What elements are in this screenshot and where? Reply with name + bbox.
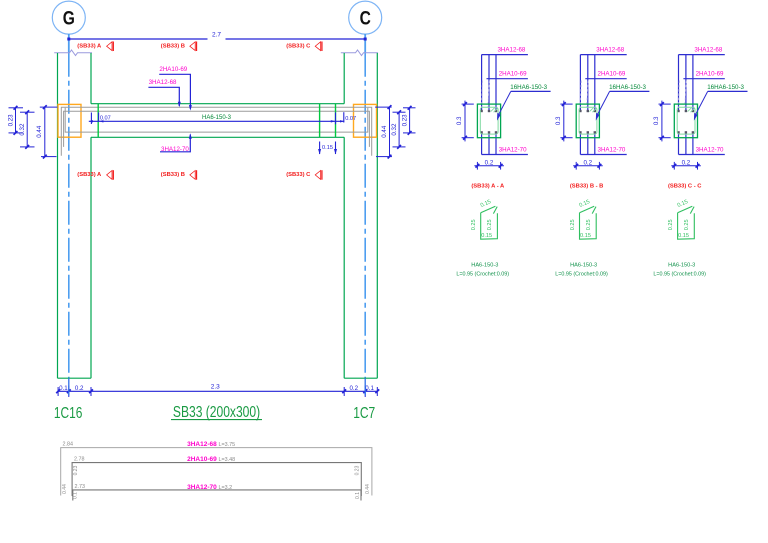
svg-text:SB33 (200x300): SB33 (200x300) (173, 403, 260, 421)
dimension 0.23 right (401, 106, 415, 135)
label 2HA10-69 with leader (159, 66, 192, 111)
svg-text:0.1: 0.1 (73, 492, 79, 499)
dimension 2.7 top (67, 32, 366, 41)
section cut marker (SB33) A bottom (77, 170, 113, 180)
svg-text:(SB33) A: (SB33) A (77, 43, 102, 49)
dimension 0.44 right (375, 105, 392, 158)
label 3HA12-68 with leader (148, 79, 180, 107)
svg-text:(SB33) A: (SB33) A (77, 172, 102, 178)
stirrup tick left (97, 104, 99, 137)
stirrup distribution line HA6-150-3 (89, 112, 356, 124)
rebar 2HA10-69 elevation (second top bar with 0.32 hooks) (64, 111, 370, 147)
svg-text:0.23: 0.23 (7, 114, 14, 127)
dimension 0.32 left (19, 110, 35, 149)
svg-text:0.23: 0.23 (401, 114, 408, 127)
section B-B assembly (555, 47, 650, 278)
svg-text:1C16: 1C16 (54, 404, 83, 422)
joint block left (58, 104, 81, 137)
svg-text:HA6-150-3: HA6-150-3 (202, 115, 232, 121)
svg-text:0.1: 0.1 (365, 385, 374, 392)
section A-A assembly (456, 47, 551, 278)
column 1C16 outline (58, 53, 92, 378)
svg-text:(SB33) C: (SB33) C (286, 172, 311, 178)
section cut marker (SB33) A top (77, 42, 113, 52)
section C-C assembly (653, 47, 748, 278)
svg-text:2HA10-69: 2HA10-69 (159, 66, 187, 73)
beam SB33 outline (91, 104, 344, 138)
svg-text:0.44: 0.44 (365, 484, 371, 494)
svg-text:(SB33) B: (SB33) B (161, 43, 185, 49)
svg-text:3HA12-70: 3HA12-70 (187, 484, 217, 491)
grid centerline C (364, 34, 366, 378)
svg-text:2HA10-69: 2HA10-69 (187, 456, 217, 463)
svg-text:2.73: 2.73 (75, 484, 86, 490)
svg-text:3HA12-68: 3HA12-68 (149, 79, 177, 86)
label 3HA12-70 with leader (160, 133, 192, 153)
section cut marker (SB33) B top (161, 42, 197, 52)
dimension 0.44 left (36, 105, 57, 158)
centerline stub below column C (364, 378, 366, 395)
stirrup tick right 1 (319, 104, 321, 137)
dimension 0.15 stirrup spacing (318, 142, 337, 155)
svg-text:2.78: 2.78 (74, 456, 85, 462)
grid bubble G (52, 1, 85, 34)
rebar 3HA12-68 elevation (top bar with 0.44 hooks) (61, 107, 371, 155)
svg-text:L=3.2: L=3.2 (219, 485, 233, 491)
svg-text:(SB33) B: (SB33) B (161, 172, 185, 178)
svg-text:0.07: 0.07 (345, 116, 356, 122)
svg-text:G: G (63, 7, 75, 29)
schedule bar 3HA12-68 shape (61, 448, 372, 496)
column 1C7 outline (344, 53, 377, 378)
schedule bar 2HA10-69 shape (72, 463, 361, 496)
svg-text:3HA12-68: 3HA12-68 (187, 441, 217, 448)
joint block right (354, 104, 377, 137)
svg-text:(SB33) B - B: (SB33) B - B (570, 183, 604, 189)
svg-text:L=3.48: L=3.48 (219, 457, 236, 463)
svg-text:2.7: 2.7 (212, 32, 221, 39)
svg-text:0.2: 0.2 (75, 385, 84, 392)
grid centerline G (68, 34, 70, 378)
break line left column (54, 50, 92, 56)
svg-text:0.1: 0.1 (59, 385, 68, 392)
grid bubble C (349, 1, 382, 34)
svg-text:2.3: 2.3 (211, 384, 220, 391)
svg-text:1C7: 1C7 (353, 404, 375, 422)
section cut marker (SB33) C bottom (286, 170, 322, 180)
break line right column (341, 50, 378, 56)
svg-text:0.15: 0.15 (322, 145, 333, 151)
schedule label 2HA10-69 (187, 456, 235, 463)
svg-text:0.32: 0.32 (391, 123, 398, 136)
schedule label 3HA12-68 (187, 441, 235, 448)
dimension 0.32 right (391, 110, 406, 149)
stirrup tick right 2 (335, 104, 337, 137)
dimension 0.23 left (7, 106, 23, 135)
svg-text:0.44: 0.44 (36, 125, 43, 138)
schedule label 3HA12-70 (187, 484, 232, 491)
centerline stub below column G (68, 378, 70, 395)
svg-text:0.1: 0.1 (355, 492, 361, 499)
svg-text:0.07: 0.07 (100, 115, 111, 121)
svg-text:C: C (360, 7, 371, 29)
svg-text:0.44: 0.44 (62, 484, 68, 494)
svg-text:0.32: 0.32 (19, 123, 26, 136)
title SB33 (200x300) (171, 403, 262, 421)
svg-text:0.23: 0.23 (355, 465, 361, 475)
section cut marker (SB33) B bottom (161, 170, 197, 180)
svg-text:2.84: 2.84 (63, 441, 74, 447)
section cut marker (SB33) C top (286, 42, 322, 52)
svg-text:(SB33) C: (SB33) C (286, 43, 311, 49)
svg-text:0.44: 0.44 (381, 125, 388, 138)
schedule bar 3HA12-70 shape (73, 490, 361, 501)
svg-text:(SB33) A - A: (SB33) A - A (471, 183, 505, 189)
svg-text:0.2: 0.2 (349, 385, 358, 392)
svg-text:(SB33) C - C: (SB33) C - C (668, 183, 702, 189)
bottom dimension chain 0.1 0.2 2.3 0.2 0.1 (56, 384, 379, 397)
svg-text:0.23: 0.23 (73, 465, 79, 475)
rebar 3HA12-70 elevation (bottom bar with 0.23 up hooks) (65, 108, 368, 132)
svg-text:L=3.75: L=3.75 (219, 442, 236, 448)
